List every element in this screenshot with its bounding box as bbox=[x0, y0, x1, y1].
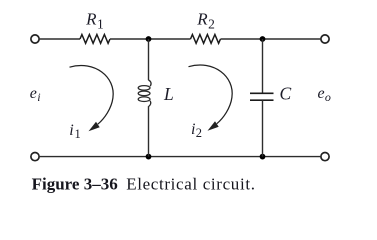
node junction top L bbox=[146, 36, 152, 42]
svg-text:i2: i2 bbox=[191, 121, 202, 140]
wire bottom rail bbox=[40, 156, 321, 158]
terminal bottom-right bbox=[321, 153, 329, 161]
wire capacitor branch upper bbox=[262, 39, 264, 93]
wire top-left segment bbox=[40, 38, 80, 40]
terminal bottom-left bbox=[31, 153, 39, 161]
inductor L coil bbox=[138, 80, 151, 107]
mesh current arrow i1 bbox=[70, 66, 114, 132]
mesh current arrow i2 bbox=[189, 65, 233, 131]
wire inductor branch lower bbox=[148, 106, 150, 156]
resistor R2 bbox=[191, 35, 221, 44]
node junction bottom C bbox=[260, 154, 266, 160]
node junction top C bbox=[260, 36, 266, 42]
capacitor C plate bottom bbox=[250, 99, 274, 101]
resistor R1 bbox=[80, 35, 110, 44]
svg-text:C: C bbox=[280, 84, 292, 104]
svg-text:L: L bbox=[163, 84, 174, 104]
svg-text:Figure 3–36Electrical circuit.: Figure 3–36Electrical circuit. bbox=[32, 175, 256, 194]
svg-text:eo: eo bbox=[318, 85, 331, 104]
terminal top-left bbox=[31, 35, 39, 43]
terminal top-right bbox=[321, 35, 329, 43]
capacitor C plate top bbox=[250, 92, 274, 94]
svg-text:ei: ei bbox=[30, 85, 41, 104]
wire top-middle segment bbox=[110, 38, 191, 40]
svg-text:R2: R2 bbox=[196, 10, 215, 32]
wire capacitor branch lower bbox=[262, 100, 264, 156]
svg-text:R1: R1 bbox=[85, 10, 104, 32]
svg-text:i1: i1 bbox=[69, 122, 81, 141]
wire inductor branch upper bbox=[148, 39, 150, 80]
node junction bottom L bbox=[146, 154, 152, 160]
wire top-right segment bbox=[221, 38, 321, 40]
